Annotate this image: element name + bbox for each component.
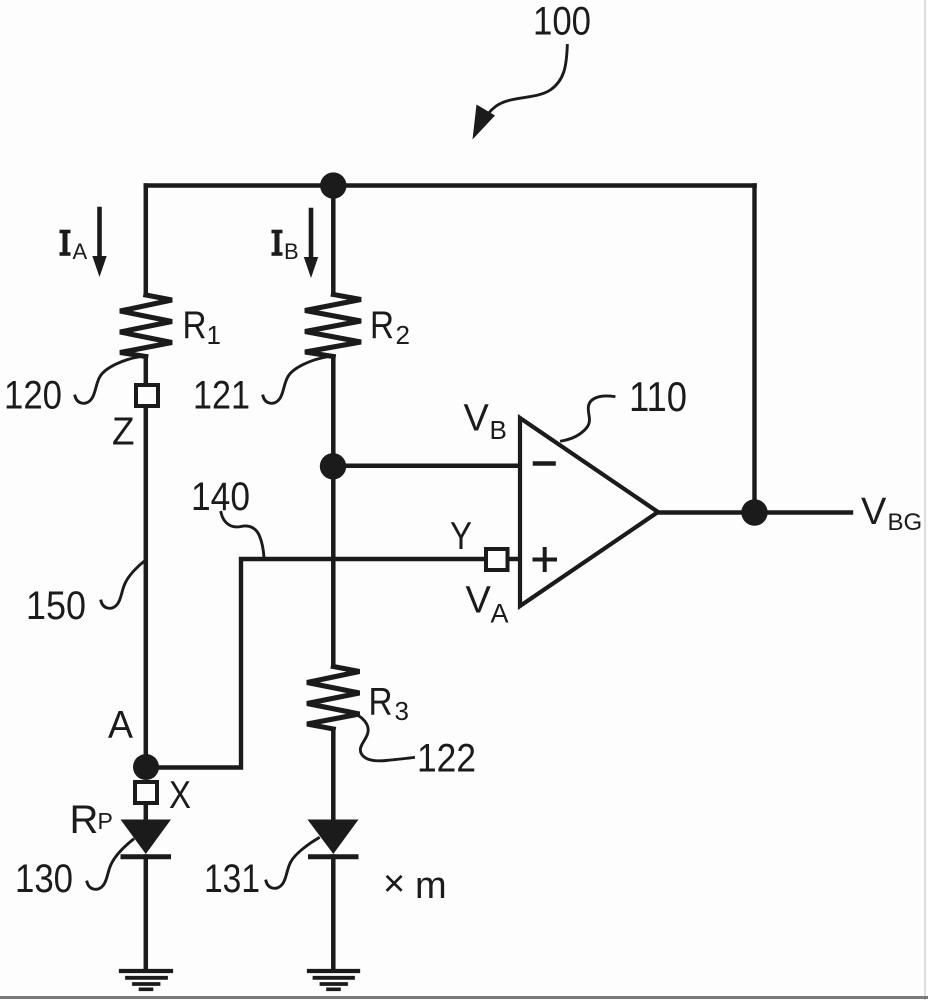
wire 140 node A to Y square bbox=[157, 559, 484, 768]
svg-text:130: 130 bbox=[15, 857, 73, 901]
svg-text:A: A bbox=[491, 599, 509, 629]
svg-text:X: X bbox=[169, 774, 191, 817]
svg-text:R: R bbox=[369, 680, 393, 723]
svg-text:122: 122 bbox=[417, 736, 476, 780]
svg-text:V: V bbox=[464, 398, 490, 440]
svg-text:V: V bbox=[861, 491, 887, 533]
svg-text:100: 100 bbox=[533, 0, 591, 44]
diode 131 triangle bbox=[308, 820, 359, 855]
svg-text:R: R bbox=[70, 798, 99, 842]
resistor R2 zigzag bbox=[305, 295, 361, 357]
label IB current bbox=[272, 231, 299, 264]
svg-text:Z: Z bbox=[112, 411, 135, 454]
wire R3 to diode 131 bbox=[331, 729, 336, 821]
svg-text:Y: Y bbox=[450, 515, 472, 558]
svg-text:A: A bbox=[108, 704, 133, 747]
svg-text:B: B bbox=[490, 415, 507, 445]
svg-text:R: R bbox=[183, 304, 207, 347]
leader arrow for 100 bbox=[480, 46, 568, 126]
svg-text:m: m bbox=[415, 865, 447, 907]
diode 131 cathode bar bbox=[311, 854, 357, 859]
wire X to diode 130 bbox=[144, 805, 149, 821]
op-amp plus sign bbox=[535, 549, 556, 570]
svg-text:R: R bbox=[370, 304, 394, 347]
svg-text:140: 140 bbox=[191, 475, 250, 519]
op-amp U110 triangle bbox=[520, 418, 658, 606]
svg-text:A: A bbox=[73, 239, 88, 264]
svg-text:1: 1 bbox=[207, 320, 221, 350]
node B junction dot bbox=[320, 453, 346, 479]
svg-text:BG: BG bbox=[888, 509, 923, 536]
leader squiggle 131 bbox=[266, 838, 319, 888]
terminal square X bbox=[135, 782, 157, 803]
svg-text:150: 150 bbox=[26, 584, 86, 628]
wire node B to op-amp inverting input bbox=[333, 464, 520, 469]
wire Z down to node A bbox=[144, 408, 149, 766]
svg-text:B: B bbox=[284, 239, 299, 264]
wire R2 to node B bbox=[331, 357, 336, 467]
resistor R3 zigzag bbox=[307, 667, 360, 730]
svg-text:131: 131 bbox=[204, 857, 260, 901]
svg-text:121: 121 bbox=[193, 373, 250, 417]
scan artifact right faint line bbox=[924, 0, 926, 1000]
leader squiggle 122 bbox=[349, 711, 414, 761]
svg-text:V: V bbox=[466, 580, 492, 622]
svg-text:110: 110 bbox=[629, 373, 687, 420]
terminal square Z bbox=[136, 385, 158, 406]
terminal square Y bbox=[486, 549, 508, 570]
node junction dot top bus bbox=[320, 172, 346, 198]
leader squiggle 150 bbox=[101, 561, 145, 608]
op-amp minus sign bbox=[535, 461, 554, 466]
ground symbol left bbox=[121, 971, 171, 989]
node VBG output junction dot bbox=[741, 499, 767, 525]
svg-text:2: 2 bbox=[396, 320, 410, 350]
label IA current bbox=[60, 231, 88, 264]
diode 130 cathode bar bbox=[123, 854, 169, 859]
scan artifact bottom gray line bbox=[0, 996, 928, 999]
wire node B down to R3 bbox=[331, 466, 336, 667]
wire R1 to square Z bbox=[144, 357, 149, 385]
current arrow IB bbox=[309, 210, 314, 259]
svg-text:3: 3 bbox=[395, 696, 409, 726]
wire middle branch upper vertical bbox=[331, 186, 336, 295]
wire diode 130 to ground bbox=[144, 857, 149, 970]
svg-text:P: P bbox=[98, 808, 113, 834]
diode 130 triangle bbox=[121, 820, 172, 855]
leader squiggle 140 bbox=[221, 513, 264, 558]
resistor R1 zigzag bbox=[120, 295, 172, 357]
node A junction dot bbox=[133, 754, 159, 780]
wire right feedback vertical bbox=[752, 186, 756, 513]
wire top horizontal bus bbox=[146, 183, 755, 188]
wire left branch upper vertical bbox=[144, 186, 149, 296]
leader squiggle 130 bbox=[87, 840, 133, 890]
leader squiggle 110 bbox=[562, 396, 615, 441]
leader squiggle 120 bbox=[75, 357, 141, 404]
ground symbol middle bbox=[309, 971, 358, 989]
current arrow IA bbox=[97, 209, 102, 258]
svg-text:×: × bbox=[383, 863, 405, 905]
svg-text:120: 120 bbox=[4, 373, 62, 417]
wire diode 131 to ground bbox=[331, 857, 336, 970]
wire Y square to op-amp non-inverting input bbox=[510, 557, 520, 562]
wire op-amp output bbox=[658, 510, 851, 514]
leader squiggle 121 bbox=[263, 357, 329, 404]
